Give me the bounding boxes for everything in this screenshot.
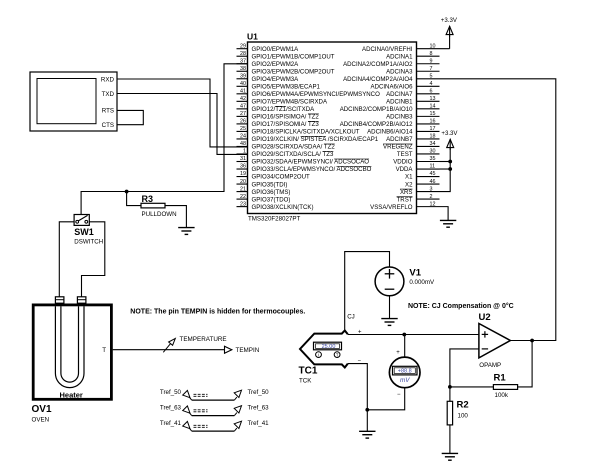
svg-text:4: 4 (430, 81, 433, 87)
svg-text:GPIO32/SDAA/EPWMSYNCI/ ADCSOCA: GPIO32/SDAA/EPWMSYNCI/ ADCSOCAO (252, 159, 370, 166)
svg-text:+3.3V: +3.3V (441, 17, 458, 24)
svg-text:+: + (396, 350, 400, 356)
svg-text:RXD: RXD (101, 76, 115, 83)
svg-text:ADCINA2/COMP1A/AIO2: ADCINA2/COMP1A/AIO2 (343, 61, 413, 68)
svg-text:GPIO4/EPWM3A: GPIO4/EPWM3A (252, 76, 300, 83)
svg-text:SW1: SW1 (74, 227, 94, 237)
svg-text:TCK: TCK (299, 378, 312, 385)
svg-text:Tref_41: Tref_41 (248, 420, 270, 427)
svg-text:GPIO28/SCIRXDA/SDAA/ TZ2: GPIO28/SCIRXDA/SDAA/ TZ2 (252, 144, 336, 151)
svg-text:16: 16 (430, 119, 436, 125)
svg-text:46: 46 (430, 179, 436, 185)
svg-text:VDDA: VDDA (396, 166, 414, 173)
svg-text:+: + (358, 329, 362, 335)
svg-text:ADCINA0/VREFHI: ADCINA0/VREFHI (362, 46, 413, 53)
svg-text:0.000mV: 0.000mV (409, 279, 435, 286)
svg-text:Tref_50: Tref_50 (160, 389, 182, 396)
svg-text:TEMPERATURE: TEMPERATURE (180, 336, 227, 343)
svg-text:6: 6 (430, 89, 433, 95)
svg-text:GPIO5/EPWM3B/ECAP1: GPIO5/EPWM3B/ECAP1 (252, 84, 321, 91)
svg-text:14: 14 (430, 104, 436, 110)
svg-text:38: 38 (240, 66, 246, 72)
svg-text:3: 3 (430, 186, 433, 192)
svg-text:U1: U1 (247, 31, 258, 41)
svg-text:11: 11 (430, 164, 436, 170)
svg-text:+3.3V: +3.3V (441, 130, 458, 137)
svg-text:NOTE: The pin TEMPIN is hidden: NOTE: The pin TEMPIN is hidden for therm… (130, 309, 305, 316)
svg-text:TEMPIN: TEMPIN (236, 347, 260, 354)
svg-text:39: 39 (240, 73, 246, 79)
svg-text:5: 5 (430, 73, 433, 79)
svg-text:30: 30 (430, 149, 436, 155)
svg-text:T: T (102, 347, 106, 354)
svg-text:GPIO29/SCITXDA/SCLA/ TZ3: GPIO29/SCITXDA/SCLA/ TZ3 (252, 151, 334, 158)
svg-text:X1: X1 (405, 174, 413, 181)
svg-text:GPIO12/TZ1/SCITXDA: GPIO12/TZ1/SCITXDA (252, 106, 316, 113)
svg-text:GPIO3/EPWM2B/COMP2OUT: GPIO3/EPWM2B/COMP2OUT (252, 68, 335, 75)
svg-text:ADCINB6/AIO14: ADCINB6/AIO14 (367, 129, 413, 136)
svg-text:T: T (336, 353, 339, 358)
svg-text:21: 21 (240, 186, 246, 192)
svg-text:48: 48 (240, 141, 246, 147)
svg-text:R3: R3 (142, 194, 154, 204)
svg-text:GPIO18/SPICLKA/SCITXDA/XCLKOUT: GPIO18/SPICLKA/SCITXDA/XCLKOUT (252, 129, 360, 136)
svg-text:GPIO17/SPISOMIA/ TZ3: GPIO17/SPISOMIA/ TZ3 (252, 121, 320, 128)
svg-text:GPIO37(TDO): GPIO37(TDO) (252, 196, 291, 203)
svg-text:i: i (318, 353, 319, 358)
svg-text:TXD: TXD (102, 91, 115, 98)
svg-text:ADCINB7: ADCINB7 (386, 136, 413, 143)
svg-text:DSWITCH: DSWITCH (74, 239, 103, 246)
svg-text:mV: mV (400, 377, 410, 384)
svg-text:41: 41 (240, 89, 246, 95)
svg-text:−: − (397, 392, 401, 398)
svg-text:+88.8: +88.8 (398, 369, 412, 375)
svg-text:26: 26 (240, 119, 246, 125)
svg-text:GPIO19/XCLKIN/ SPISTEA /SCIRXD: GPIO19/XCLKIN/ SPISTEA /SCIRXDA/ECAP1 (252, 136, 379, 143)
svg-text:2: 2 (430, 194, 433, 200)
svg-text:Tref_41: Tref_41 (160, 420, 182, 427)
svg-text:TMS320F28027PT: TMS320F28027PT (248, 216, 300, 223)
svg-text:23: 23 (240, 201, 246, 207)
svg-text:36: 36 (240, 164, 246, 170)
svg-text:Tref_63: Tref_63 (248, 404, 270, 411)
svg-text:TRST: TRST (397, 196, 413, 203)
svg-text:GPIO35(TDI): GPIO35(TDI) (252, 181, 288, 188)
svg-text:20: 20 (240, 179, 246, 185)
svg-text:24: 24 (240, 134, 246, 140)
svg-text:42: 42 (240, 96, 246, 102)
svg-text:CTS: CTS (102, 122, 114, 129)
svg-text:TEST: TEST (397, 151, 413, 158)
svg-text:GPIO6/EPWM4A/EPWMSYNCI/EPWMSYN: GPIO6/EPWM4A/EPWMSYNCI/EPWMSYNCO (252, 91, 381, 98)
svg-text:U2: U2 (479, 312, 491, 323)
svg-text:31: 31 (240, 156, 246, 162)
svg-text:25: 25 (240, 126, 246, 132)
svg-text:GPIO7/EPWM4B/SCIRXDA: GPIO7/EPWM4B/SCIRXDA (252, 99, 328, 106)
svg-text:29: 29 (240, 43, 246, 49)
svg-text:GPIO1/EPWM1B/COMP1OUT: GPIO1/EPWM1B/COMP1OUT (252, 53, 335, 60)
svg-text:GPIO0/EPWM1A: GPIO0/EPWM1A (252, 46, 300, 53)
svg-text:RTS: RTS (102, 108, 114, 115)
svg-text:7: 7 (430, 66, 433, 72)
svg-text:NOTE: CJ Compensation @ 0°C: NOTE: CJ Compensation @ 0°C (408, 302, 514, 310)
svg-text:22: 22 (240, 194, 246, 200)
svg-text:1: 1 (243, 149, 246, 155)
svg-text:27: 27 (240, 111, 246, 117)
svg-text:VSSA/VREFLO: VSSA/VREFLO (370, 204, 413, 211)
svg-text:GPIO38/XCLKIN(TCK): GPIO38/XCLKIN(TCK) (252, 204, 314, 211)
svg-text:TC1: TC1 (299, 366, 318, 377)
svg-text:25.00: 25.00 (322, 344, 336, 350)
svg-text:ADCINA4/COMP2A/AIO4: ADCINA4/COMP2A/AIO4 (343, 76, 413, 83)
svg-text:15: 15 (430, 111, 436, 117)
svg-text:V1: V1 (409, 268, 421, 279)
svg-text:10: 10 (430, 43, 436, 49)
svg-text:Tref_50: Tref_50 (248, 389, 270, 396)
svg-text:Heater: Heater (60, 390, 83, 399)
svg-text:35: 35 (430, 156, 436, 162)
svg-text:47: 47 (240, 104, 246, 110)
svg-text:VREGENZ: VREGENZ (383, 144, 413, 151)
svg-text:ADCINB3: ADCINB3 (386, 114, 413, 121)
svg-text:28: 28 (240, 51, 246, 57)
svg-text:PULLDOWN: PULLDOWN (142, 211, 177, 218)
svg-text:34: 34 (430, 141, 436, 147)
svg-text:GPIO33/SCLA/EPWMSYNCO/ ADCSOCB: GPIO33/SCLA/EPWMSYNCO/ ADCSOCBO (252, 166, 372, 173)
svg-text:18: 18 (430, 134, 436, 140)
svg-text:GPIO16/SPISIMOA/ TZ2: GPIO16/SPISIMOA/ TZ2 (252, 114, 320, 121)
svg-text:8: 8 (430, 51, 433, 57)
svg-text:100: 100 (458, 412, 469, 419)
svg-text:ADCINA1: ADCINA1 (386, 53, 413, 60)
svg-text:45: 45 (430, 171, 436, 177)
svg-text:R2: R2 (457, 400, 469, 411)
svg-text:ADCINA7: ADCINA7 (386, 91, 413, 98)
svg-text:ADCINA3: ADCINA3 (386, 68, 413, 75)
svg-text:ADCINA6/AIO6: ADCINA6/AIO6 (371, 84, 414, 91)
svg-text:GPIO2/EPWM2A: GPIO2/EPWM2A (252, 61, 300, 68)
svg-text:OPAMP: OPAMP (479, 362, 501, 369)
svg-text:GPIO34/COMP2OUT: GPIO34/COMP2OUT (252, 174, 311, 181)
svg-text:VDDIO: VDDIO (393, 159, 413, 166)
svg-text:R1: R1 (494, 373, 507, 384)
svg-text:19: 19 (240, 171, 246, 177)
svg-text:X2: X2 (405, 181, 413, 188)
svg-text:9: 9 (430, 58, 433, 64)
svg-text:Tref_63: Tref_63 (160, 404, 182, 411)
svg-text:OVEN: OVEN (32, 417, 50, 424)
svg-text:GPIO36(TMS): GPIO36(TMS) (252, 189, 291, 196)
svg-text:12: 12 (430, 201, 436, 207)
svg-text:OV1: OV1 (32, 404, 52, 415)
svg-text:100k: 100k (495, 392, 509, 399)
svg-text:13: 13 (430, 96, 436, 102)
svg-text:40: 40 (240, 81, 246, 87)
svg-text:17: 17 (430, 126, 436, 132)
svg-text:CJ: CJ (347, 313, 355, 320)
svg-text:ADCINB1: ADCINB1 (386, 99, 413, 106)
svg-text:ADCINB2/COMP1B/AIO10: ADCINB2/COMP1B/AIO10 (340, 106, 413, 113)
svg-text:XRS: XRS (400, 189, 413, 196)
svg-text:ADCINB4/COMP2B/AIO12: ADCINB4/COMP2B/AIO12 (340, 121, 413, 128)
